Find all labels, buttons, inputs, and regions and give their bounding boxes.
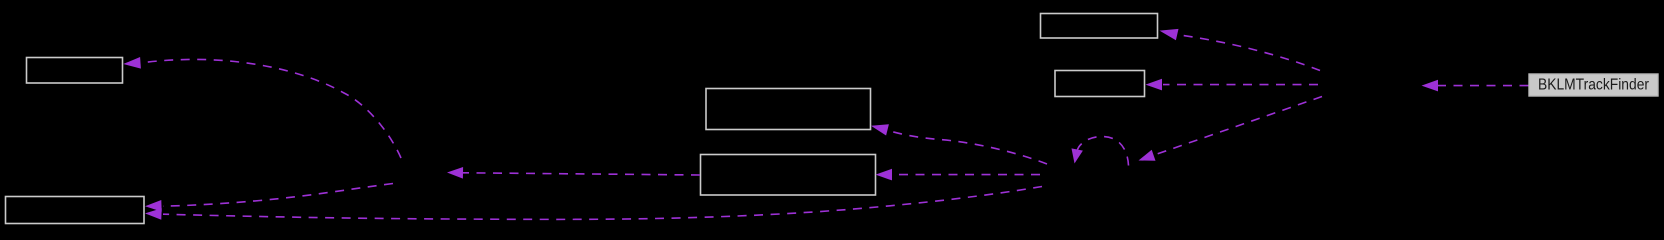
node box M1 (hidden label) xyxy=(706,89,871,130)
node box T2 (hidden label) xyxy=(1055,71,1145,97)
edge M2 to node1 xyxy=(447,167,700,179)
node BKLMTrackFinder (highlighted) xyxy=(1529,74,1658,96)
edge nodeR to T2 xyxy=(1146,79,1319,91)
edge node1 to BL xyxy=(145,184,393,212)
node box TL (hidden label) xyxy=(27,58,123,84)
edge nodeR to center xyxy=(1139,97,1323,161)
node box M2 (hidden label) xyxy=(701,155,876,196)
node box T1 (hidden label) xyxy=(1041,14,1158,39)
edge BKLMTrackFinder to nodeR xyxy=(1422,80,1529,92)
edge center to M1 xyxy=(871,124,1047,164)
edge nodeR to T1 xyxy=(1160,29,1321,71)
edge center to BL (long bottom) xyxy=(145,187,1042,220)
edge self-loop on center node xyxy=(1072,137,1129,166)
edge center to M2 xyxy=(876,169,1041,181)
svg-text:BKLMTrackFinder: BKLMTrackFinder xyxy=(1538,77,1650,94)
node box BL (hidden label) xyxy=(6,197,145,224)
edge node1 to TL xyxy=(123,57,401,158)
